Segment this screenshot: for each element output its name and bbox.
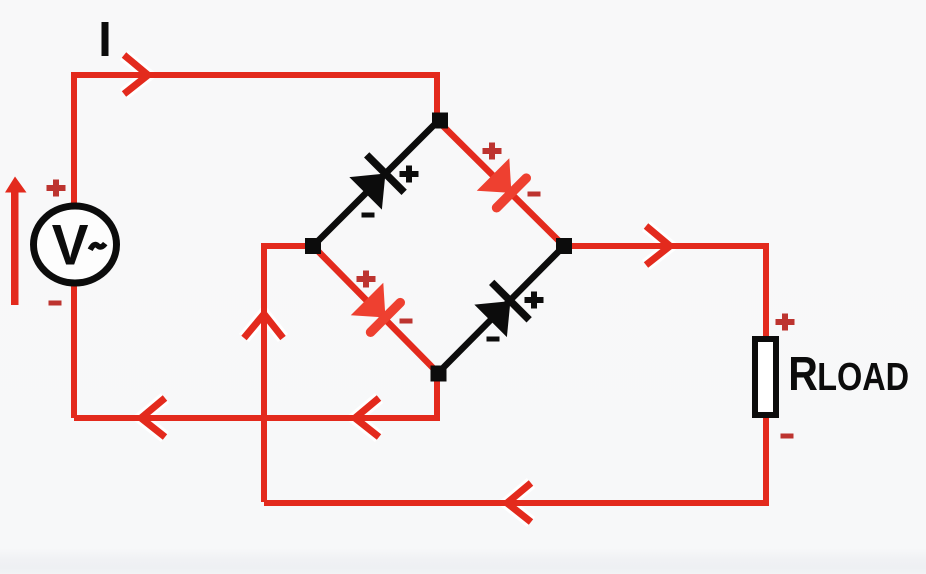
wire: bottom return y=502 xyxy=(264,246,766,503)
wire: left bridge feed vertical x=264 xyxy=(264,246,313,502)
label I xyxy=(102,22,109,56)
arrow I top (right) xyxy=(124,55,148,94)
source V label xyxy=(52,225,88,264)
wire overdraw through arrow halos xyxy=(110,75,690,503)
diode D4 symbol xyxy=(472,282,529,339)
current direction arrow at far left xyxy=(5,177,27,306)
arrow casings (white halo) xyxy=(124,55,670,522)
diode D2 (top-right, red) lead xyxy=(438,121,564,246)
source plus xyxy=(47,180,66,197)
diode D1 plus xyxy=(400,166,419,183)
load resistor body xyxy=(755,339,776,415)
wire: top horizontal from source to bridge top xyxy=(74,75,437,418)
diode D1 symbol xyxy=(347,155,404,212)
source tilde xyxy=(90,244,105,250)
label LOAD xyxy=(819,363,907,391)
arrow right output (right) xyxy=(646,226,670,265)
diode D3 plus xyxy=(357,271,376,288)
source V~ circle xyxy=(34,206,117,283)
arrow bottom1 left a xyxy=(141,398,165,437)
diode D3 minus xyxy=(400,319,413,324)
arrow bottom1 left b xyxy=(355,398,379,437)
diode D4 minus xyxy=(487,337,500,342)
diode D4 plus xyxy=(525,292,544,309)
node bottom xyxy=(431,366,447,382)
source minus xyxy=(49,301,62,306)
diode D4 (bottom-right, black) lead xyxy=(438,246,564,373)
node top xyxy=(432,113,448,129)
arrow bottom2 left xyxy=(507,483,531,522)
load minus xyxy=(781,434,794,439)
load plus xyxy=(776,314,795,331)
diode D2 minus xyxy=(528,192,541,197)
node left xyxy=(305,238,321,254)
node right xyxy=(556,238,572,254)
label R xyxy=(791,357,817,390)
arrow feed up xyxy=(244,314,283,338)
diode D1 minus xyxy=(362,213,375,218)
diode D3 symbol xyxy=(351,283,402,334)
diode D2 symbol xyxy=(477,158,528,209)
diode D1 (top-left, black) lead xyxy=(313,121,438,246)
diode D3 (bottom-left, red) lead xyxy=(313,246,438,373)
diode D2 plus xyxy=(483,143,502,160)
wire: bottom horizontal y=418 from source to bridge bottom xyxy=(74,373,437,418)
